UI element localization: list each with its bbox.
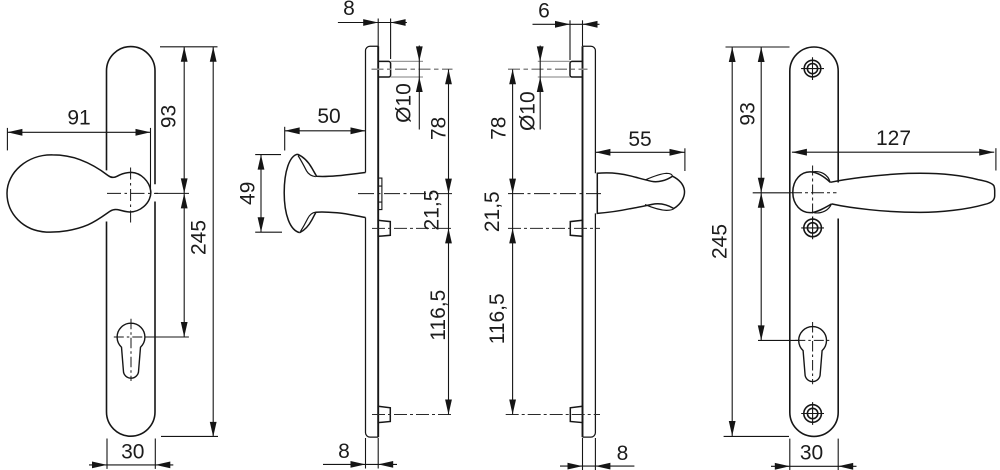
- dim 78 / 21,5 / 116,5 chain view3: [512, 69, 514, 414]
- boss centerline bottom view2: [372, 414, 453, 416]
- dim knob-to-cylinder (unlabeled): [183, 193, 185, 337]
- bottom extension line view4: [724, 435, 789, 437]
- hub leaf bottom view4: [814, 204, 832, 213]
- dim 91: [7, 128, 150, 192]
- svg-text:6: 6: [538, 0, 550, 23]
- gray screw centerline view2: [372, 68, 453, 70]
- dim 93 view4: [760, 47, 762, 193]
- top extension line view1: [160, 46, 218, 48]
- dim 8 bottom view2: [323, 438, 397, 469]
- lever grip view4: [830, 173, 994, 212]
- svg-text:Ø10: Ø10: [393, 83, 416, 123]
- svg-text:8: 8: [617, 442, 629, 465]
- knob K1 side profile: [284, 154, 365, 232]
- svg-text:93: 93: [737, 102, 760, 125]
- keyhole extension line view4: [758, 339, 799, 341]
- svg-text:49: 49: [236, 182, 259, 205]
- svg-text:30: 30: [121, 441, 144, 464]
- svg-text:21,5: 21,5: [421, 190, 444, 231]
- svg-text:93: 93: [158, 105, 181, 128]
- knob K1 front: [7, 155, 151, 232]
- svg-text:55: 55: [628, 128, 651, 151]
- svg-text:245: 245: [188, 220, 211, 255]
- bushing bottom view3: [570, 406, 582, 422]
- boss centerline bottom view3: [506, 414, 600, 416]
- knob K1 centerlines: [107, 192, 158, 194]
- boss centerline mid view3: [508, 227, 600, 229]
- svg-text:78: 78: [488, 117, 511, 140]
- dim 245 view1: [212, 47, 214, 437]
- svg-text:50: 50: [317, 105, 340, 128]
- screw bushing top view3: [570, 61, 583, 77]
- dim 78 / 21,5 / 116,5 chain view2: [448, 69, 450, 414]
- svg-text:78: 78: [428, 117, 451, 140]
- dim 8 top view2: [338, 19, 407, 61]
- svg-text:8: 8: [338, 440, 350, 463]
- backplate P4: [790, 47, 838, 436]
- gray hole extension lines view2: [391, 61, 423, 77]
- gray hole extension lines view3: [538, 61, 570, 77]
- dim hub-to-cylinder (unlabeled) view4: [760, 193, 762, 341]
- svg-text:245: 245: [709, 224, 732, 259]
- svg-text:21,5: 21,5: [481, 191, 504, 232]
- axis centerline view3: [508, 193, 601, 195]
- dim 55 view3: [595, 148, 685, 171]
- dim 8 bottom view3: [560, 438, 634, 470]
- keyhole euro cylinder view4: [799, 327, 827, 382]
- svg-text:127: 127: [876, 127, 911, 150]
- dim 30 view1: [89, 439, 173, 469]
- lever hub view4: [793, 172, 832, 213]
- screw bushing top view2: [378, 61, 390, 77]
- dim 93: [183, 47, 185, 194]
- dim 6 top view3: [533, 20, 600, 60]
- backplate P1: [107, 47, 156, 437]
- bushing bottom view2: [378, 406, 390, 422]
- dim 245 view4: [731, 47, 733, 436]
- svg-text:116,5: 116,5: [427, 290, 450, 341]
- svg-text:Ø10: Ø10: [516, 91, 539, 131]
- hub vertical centerline view4: [812, 166, 814, 222]
- dim 49: [255, 155, 282, 233]
- screw bottom view4: [801, 402, 824, 425]
- gray screw centerline view3: [508, 68, 588, 70]
- svg-text:8: 8: [343, 0, 355, 20]
- bushing mid view2: [378, 220, 390, 236]
- keyhole euro cylinder view1: [117, 323, 145, 378]
- backplate P2 side: [366, 46, 379, 437]
- boss centerline mid view2: [372, 227, 453, 229]
- svg-text:30: 30: [800, 441, 823, 464]
- dim 50: [285, 127, 366, 151]
- backplate P3 side: [583, 46, 596, 437]
- axis centerline view4: [789, 192, 837, 194]
- svg-text:116,5: 116,5: [486, 293, 509, 344]
- axis extension line view1: [145, 336, 189, 338]
- screw top view4: [801, 57, 824, 80]
- svg-text:91: 91: [67, 107, 90, 130]
- dim 127 view4: [792, 148, 996, 170]
- dim 30 view4: [771, 439, 857, 470]
- screw mid view4: [801, 217, 824, 240]
- bushing mid view3: [570, 220, 582, 236]
- axis extension line view4: [753, 192, 790, 194]
- spindle end view2: [379, 178, 382, 210]
- dim diameter 10 view3: [539, 46, 541, 130]
- hub leaf top view4: [813, 172, 831, 183]
- dim diameter 10 view2: [418, 46, 420, 130]
- axis centerline view2: [358, 193, 453, 195]
- bottom extension line view1: [161, 435, 218, 437]
- top extension line view4: [726, 46, 790, 48]
- lever grip end view3: [597, 173, 684, 214]
